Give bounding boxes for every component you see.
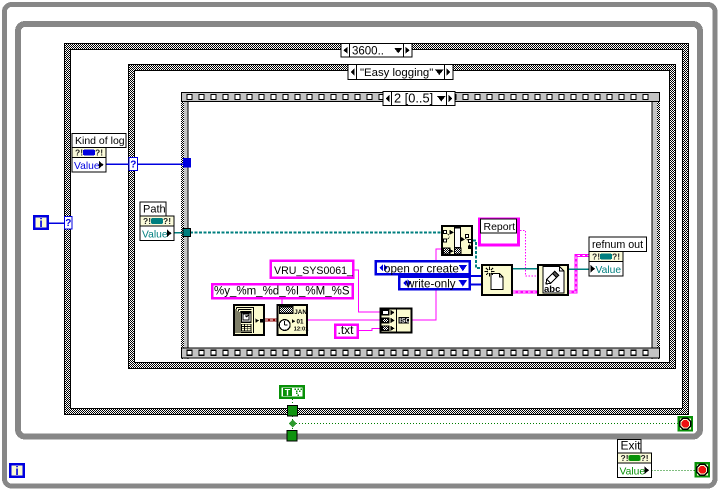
film perforations bottom xyxy=(187,350,192,355)
wire: open-or-create to file node (blue) xyxy=(469,275,482,277)
function U5 Format Date/Time String xyxy=(278,305,308,335)
wire: Path Value to sequence tunnel (teal) xyxy=(172,232,183,234)
svg-text:i: i xyxy=(15,464,18,478)
function U4 Get Date/Time In Seconds xyxy=(234,305,264,335)
CS1 selector label "3600.." xyxy=(341,44,412,58)
svg-text:Value: Value xyxy=(142,229,168,240)
wire: .txt to concat (pink) xyxy=(359,329,380,331)
svg-text:?: ? xyxy=(130,160,136,171)
svg-text:abc: abc xyxy=(544,284,560,295)
svg-text:?!: ?! xyxy=(641,453,649,463)
wire: junction to inner loop stop (green dotted) xyxy=(296,423,678,425)
wire: %y format string into U5 (pink) xyxy=(281,299,283,305)
svg-text:?!: ?! xyxy=(612,252,620,262)
svg-text:3600..: 3600.. xyxy=(352,45,384,57)
svg-text:open or create: open or create xyxy=(384,262,459,275)
string constant "VRU_SYS0061_" xyxy=(271,261,353,278)
property node P3 "refnum out" xyxy=(589,237,647,252)
function U7 Open/Create file (page with spark) xyxy=(482,265,512,295)
svg-text:VRU_SYS0061_: VRU_SYS0061_ xyxy=(274,265,354,277)
tunnel T1 blue on SQ1 left xyxy=(183,158,191,168)
CS2 selector label "Easy logging" xyxy=(348,65,453,80)
property node P1 "Kind of log" xyxy=(72,134,126,148)
wire: file node to abc node (teal) xyxy=(513,268,538,270)
svg-text:"Easy logging": "Easy logging" xyxy=(360,67,433,79)
property node P2 "Path" xyxy=(140,202,166,216)
while loop W2 (inner) xyxy=(18,24,700,437)
function U8 abc / set filename (page with pencil) xyxy=(538,265,568,295)
string constant "%y_%m_%d_%I_%M_%S" xyxy=(212,284,352,298)
wire: U3 out down to file node (teal) xyxy=(473,241,482,269)
svg-text:?!: ?! xyxy=(75,148,83,158)
wire: timestamp U4 to U5 (dark red) xyxy=(265,318,277,321)
svg-text:?!: ?! xyxy=(621,453,629,463)
ring constant "write-only" xyxy=(399,277,469,289)
junction J1 (green) xyxy=(289,420,297,428)
string constant ".txt" xyxy=(335,325,357,338)
svg-text:Exit: Exit xyxy=(621,439,642,453)
tunnel T2 teal on SQ1 left xyxy=(183,229,191,237)
coercion ? tunnel on CS2 left xyxy=(129,158,138,171)
loop condition terminal (stop) W2 xyxy=(679,417,692,430)
svg-text:write-only: write-only xyxy=(405,278,456,291)
svg-text:?!: ?! xyxy=(143,216,151,226)
loop condition terminal (stop) W1 xyxy=(696,463,709,476)
wire: concat out up to U3 (pink) xyxy=(412,249,442,320)
wire: i to coercion ? (blue) xyxy=(49,222,65,224)
case structure CS1 "3600.." border xyxy=(65,44,689,415)
svg-text:?: ? xyxy=(65,218,71,229)
coercion ? tunnel on CS1 left xyxy=(65,217,73,230)
function U3 (variant/convert node) xyxy=(442,226,472,255)
stacked sequence SQ1 border (film strip) xyxy=(181,92,184,359)
svg-text:Value: Value xyxy=(74,161,100,172)
boolean True constant xyxy=(280,386,303,397)
property node P4 "Exit" xyxy=(618,440,642,454)
wire: U5 date string to concat (pink) xyxy=(308,319,380,321)
svg-text:Value: Value xyxy=(620,466,646,477)
svg-text:Report: Report xyxy=(484,221,516,233)
wire: write-only to file node (blue) xyxy=(469,284,482,286)
wire: file node to abc node refnum (pink railroad) xyxy=(513,290,538,293)
tunnel T4 green on W2 bottom xyxy=(287,431,297,442)
wire: Kind of log Value to sequence tunnel (blue) xyxy=(106,163,183,165)
svg-text:refnum out: refnum out xyxy=(592,239,643,251)
svg-text:01: 01 xyxy=(297,319,305,326)
wire: abc node refnum to property node (pink railroad) xyxy=(569,256,590,293)
case structure CS2 "Easy logging" border xyxy=(129,65,676,369)
svg-text:12:01: 12:01 xyxy=(294,326,310,332)
iteration terminal i (W2) xyxy=(34,216,48,229)
film perforations top xyxy=(187,95,192,100)
svg-text:T: T xyxy=(285,388,291,398)
wire: path across sequence to U3 (teal dashed) xyxy=(190,232,441,234)
svg-text:%y_%m_%d_%I_%M_%S: %y_%m_%d_%I_%M_%S xyxy=(214,286,350,298)
svg-text:.txt: .txt xyxy=(338,323,355,337)
svg-text:Value: Value xyxy=(596,265,622,276)
svg-text:?!: ?! xyxy=(592,252,600,262)
wire: tunnel to junction to loop tunnel (green dotted) xyxy=(292,416,294,431)
svg-text:i: i xyxy=(39,216,42,230)
tunnel T3 green on CS1 bottom xyxy=(288,406,298,417)
svg-text:JAN: JAN xyxy=(294,309,307,316)
ring constant "open or create" xyxy=(376,261,470,274)
wire: T constant down (green dotted) xyxy=(292,399,294,406)
svg-text:2 [0..5]: 2 [0..5] xyxy=(394,91,433,106)
label "Report" xyxy=(481,219,517,233)
wire: VRU_SYS0061 to concat (pink) xyxy=(354,270,380,312)
string constant frame "Report" (magenta) xyxy=(480,219,519,245)
svg-text:Path: Path xyxy=(143,204,166,216)
SQ1 selector label "2 [0..5]" xyxy=(383,92,455,106)
svg-text:ISC: ISC xyxy=(399,318,410,325)
iteration terminal i (W1) xyxy=(10,464,24,477)
wire: Exit Value to outer loop stop (green dotted) xyxy=(652,470,696,472)
function U6 Concatenate Strings xyxy=(381,309,412,333)
wire: abc node to refnum out Value (teal) xyxy=(569,268,590,270)
wire: Report constant to abc node (pink dotted) xyxy=(520,231,538,277)
svg-text:Kind of log: Kind of log xyxy=(75,135,125,147)
svg-text:?!: ?! xyxy=(95,148,103,158)
svg-text:?!: ?! xyxy=(163,216,171,226)
